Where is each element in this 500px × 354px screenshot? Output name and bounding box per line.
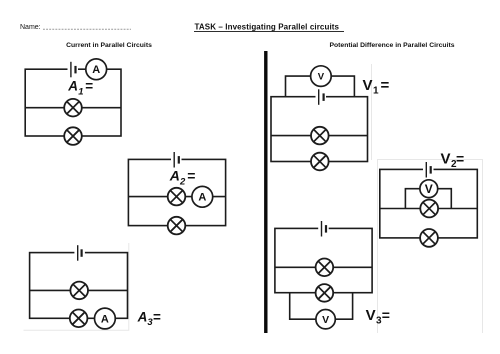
svg-text:A: A <box>137 309 148 324</box>
svg-text:V: V <box>366 307 376 324</box>
svg-text:=: = <box>153 309 161 324</box>
svg-text:A: A <box>101 313 109 325</box>
svg-text:=: = <box>456 151 464 167</box>
svg-text:=: = <box>382 307 390 323</box>
svg-text:A: A <box>169 168 180 184</box>
svg-text:2: 2 <box>179 176 186 187</box>
svg-text:TASK – Investigating Parallel: TASK – Investigating Parallel circuits <box>195 23 340 32</box>
svg-text:1: 1 <box>373 86 379 97</box>
svg-text:A: A <box>198 192 206 204</box>
svg-text:A: A <box>67 79 78 94</box>
svg-text:=: = <box>381 77 390 94</box>
svg-text:V: V <box>363 77 373 94</box>
svg-text:V: V <box>322 314 329 326</box>
svg-text:V: V <box>441 151 451 168</box>
svg-text:Potential Difference in Parall: Potential Difference in Parallel Circuit… <box>329 42 454 49</box>
svg-text:=: = <box>85 79 93 94</box>
svg-text:1: 1 <box>78 86 83 97</box>
svg-text:Current in Parallel Circuits: Current in Parallel Circuits <box>66 42 152 49</box>
svg-text:Name:: Name: <box>20 24 41 31</box>
svg-text:A: A <box>92 64 100 76</box>
svg-text:V: V <box>425 182 433 196</box>
svg-text:V: V <box>318 72 325 83</box>
svg-text:=: = <box>187 168 195 184</box>
